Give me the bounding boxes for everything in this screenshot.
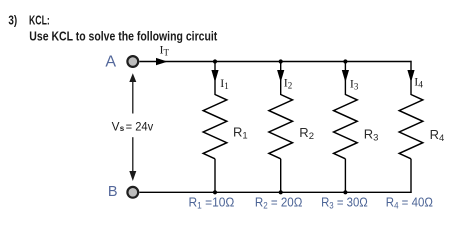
wire top: [139, 61, 411, 63]
voltage source arrow up: [132, 79, 134, 114]
current I1 arrowhead: [211, 70, 218, 82]
svg-text:R1 =10Ω: R1 =10Ω: [189, 195, 235, 211]
current IT arrowhead: [156, 58, 168, 65]
svg-text:V: V: [112, 120, 120, 134]
current I3 arrowhead: [342, 70, 349, 82]
svg-text:s: s: [120, 124, 125, 133]
node B: [127, 187, 138, 198]
svg-text:I2: I2: [284, 76, 293, 91]
svg-text:Use KCL to solve the following: Use KCL to solve the following circuit: [29, 29, 218, 44]
wire branch 2 bottom: [280, 159, 282, 193]
resistor R1: [203, 95, 227, 159]
resistor R3: [334, 95, 358, 159]
svg-text:I3: I3: [350, 77, 359, 92]
node junction bottom 3: [343, 190, 347, 194]
resistor R2: [269, 95, 293, 159]
wire branch 1 top: [214, 62, 216, 96]
node junction top 3: [343, 59, 347, 63]
svg-text:R3 = 30Ω: R3 = 30Ω: [321, 195, 368, 211]
svg-text:3): 3): [8, 12, 17, 27]
svg-text:I4: I4: [414, 75, 423, 91]
svg-text:B: B: [108, 184, 118, 200]
node junction bottom 1: [213, 190, 217, 194]
svg-text:R2 = 20Ω: R2 = 20Ω: [255, 195, 303, 211]
wire branch 4 bottom: [410, 159, 412, 193]
wire branch 2 top: [280, 62, 282, 96]
wire branch 3 bottom: [344, 159, 346, 193]
svg-text:A: A: [105, 53, 116, 70]
wire branch 4 top: [410, 61, 412, 95]
svg-text:R1: R1: [233, 125, 248, 142]
svg-text:R4 = 40Ω: R4 = 40Ω: [386, 195, 433, 211]
svg-text:R3: R3: [364, 127, 379, 144]
wire branch 3 top: [344, 62, 346, 96]
svg-text:R4: R4: [430, 127, 445, 144]
node junction top 1: [213, 59, 217, 63]
resistor R4: [399, 95, 423, 159]
svg-text:KCL:: KCL:: [29, 12, 50, 27]
svg-text:R2: R2: [299, 125, 314, 142]
current I2 arrowhead: [277, 70, 284, 82]
svg-text:IT: IT: [160, 43, 170, 58]
wire bottom: [139, 191, 411, 193]
current I4 arrowhead: [407, 70, 414, 82]
node junction top 2: [279, 59, 283, 63]
voltage source arrow down: [132, 137, 134, 172]
node A: [127, 56, 138, 67]
wire branch 1 bottom: [214, 159, 216, 193]
svg-text:= 24v: = 24v: [126, 120, 154, 134]
node junction bottom 2: [279, 190, 283, 194]
svg-text:I1: I1: [220, 76, 229, 91]
